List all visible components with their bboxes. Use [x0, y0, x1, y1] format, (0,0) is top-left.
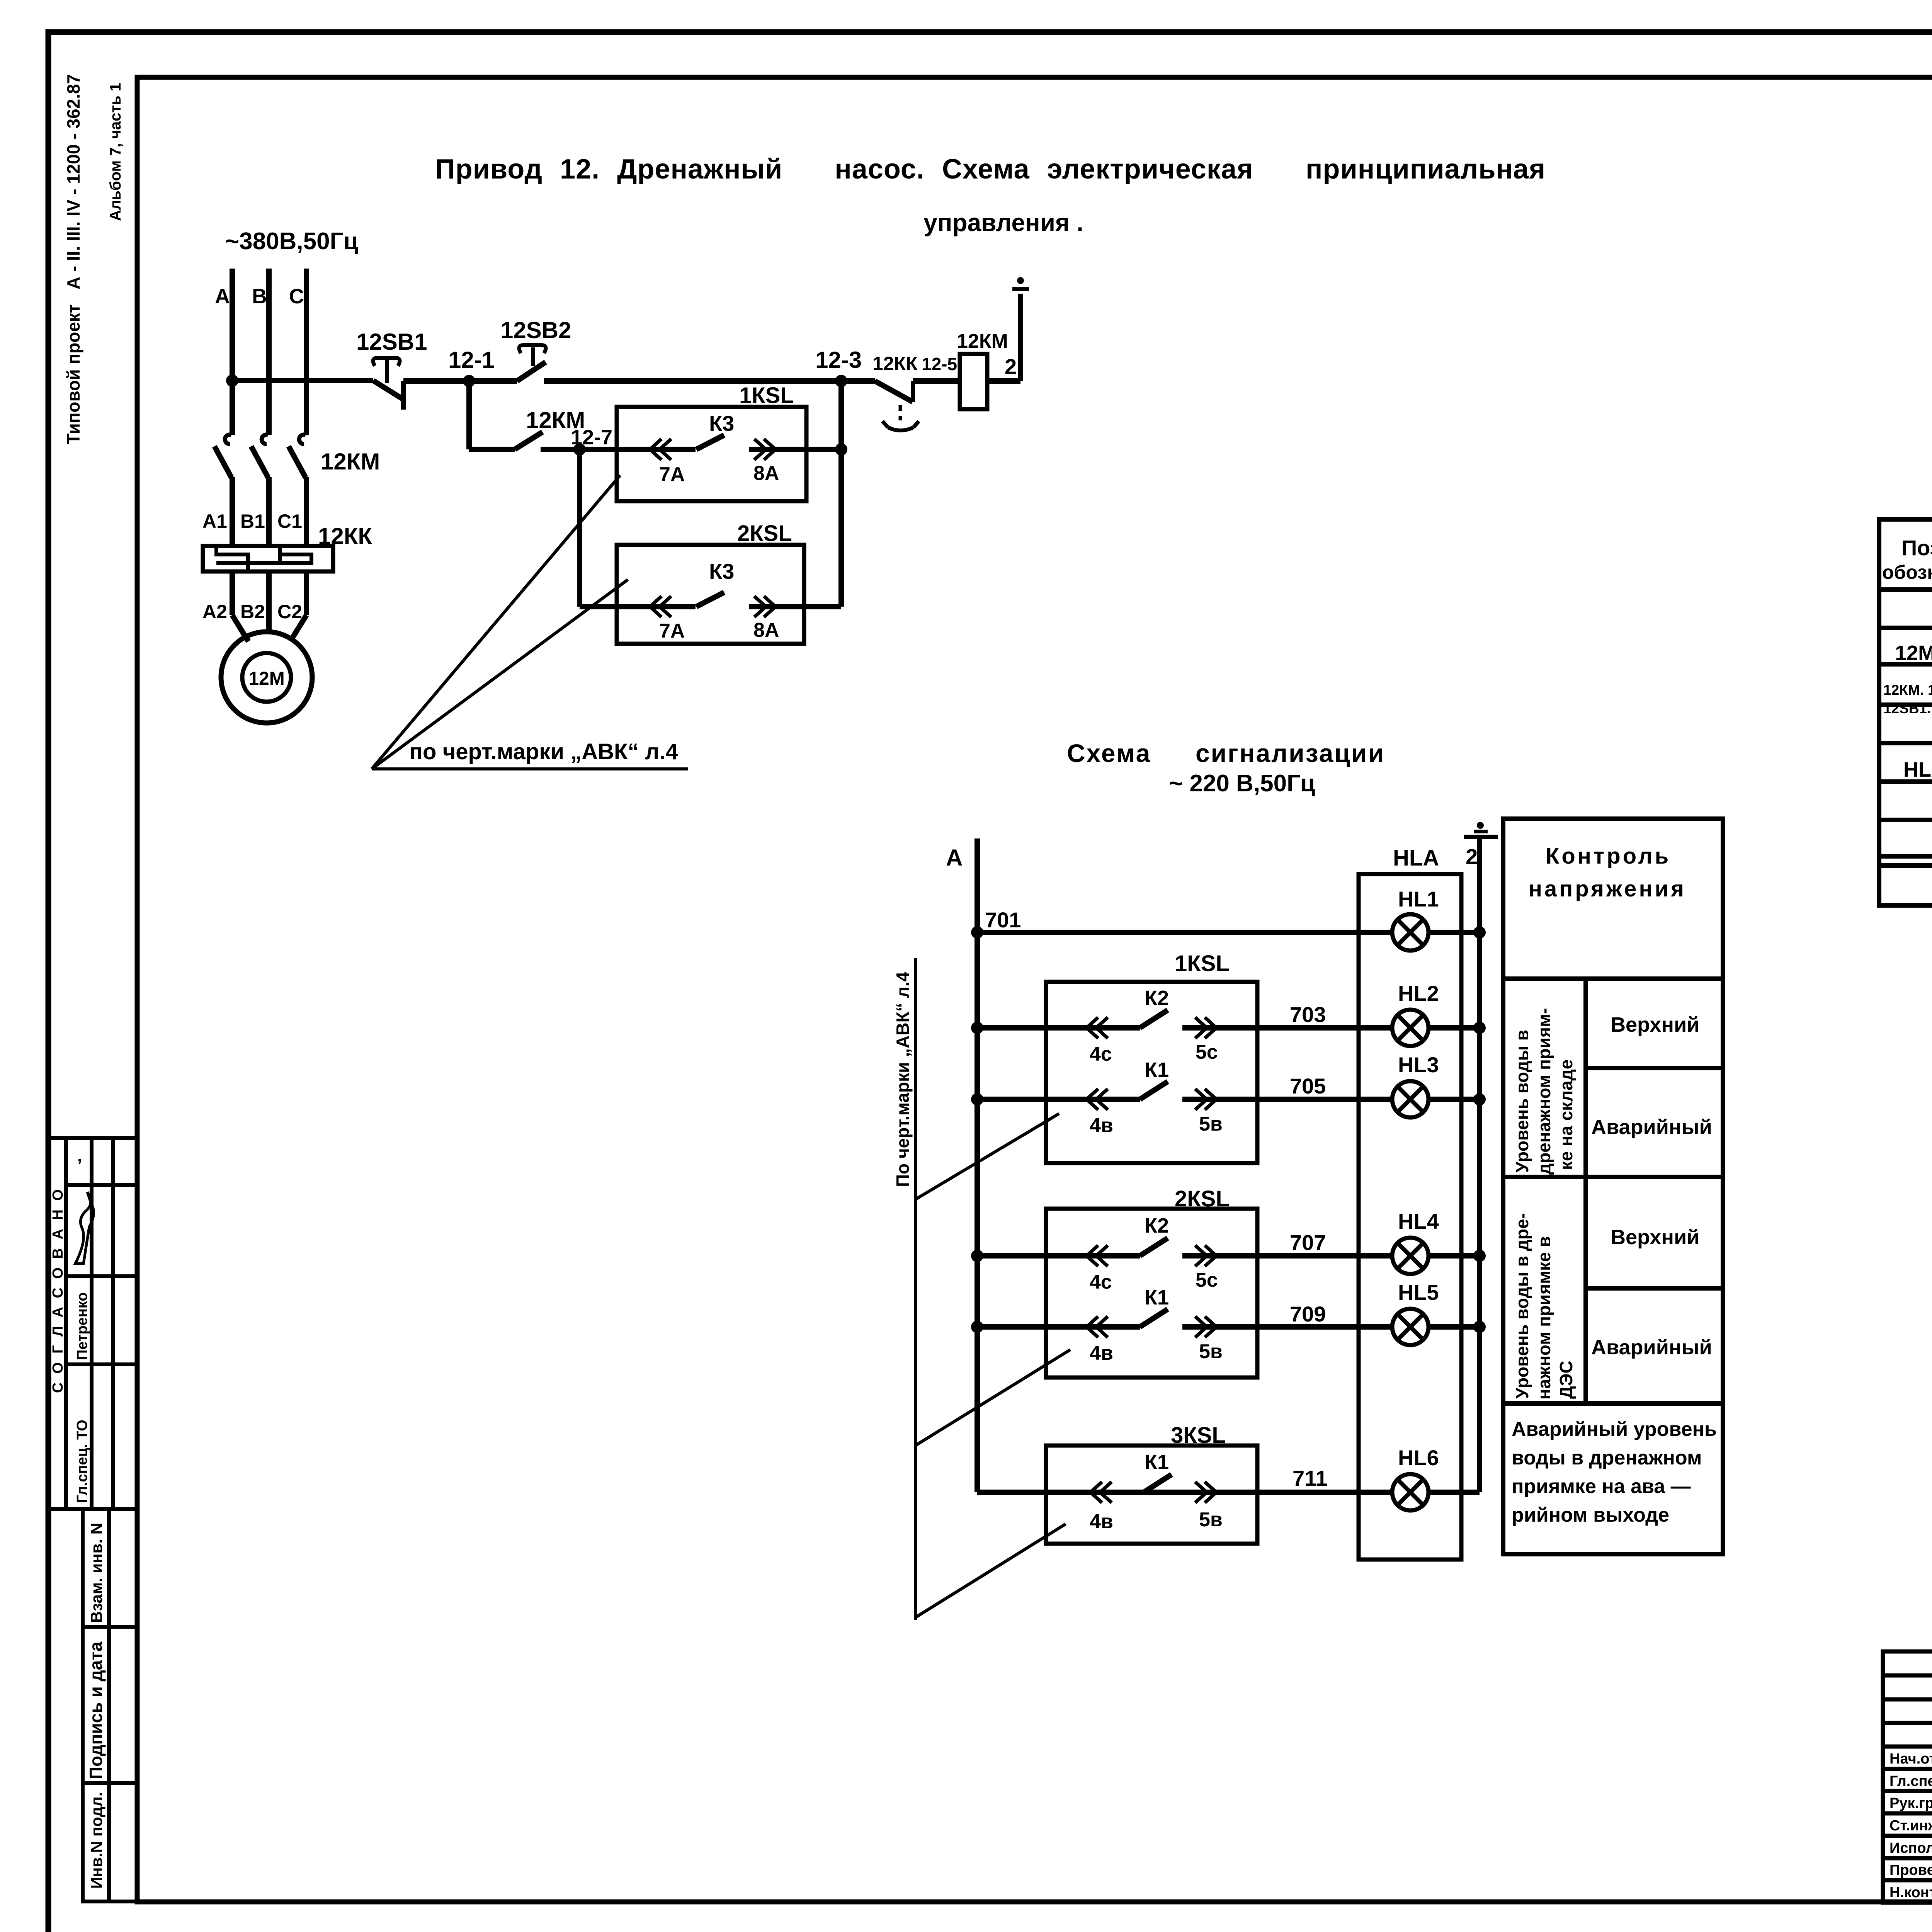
svg-text:Н.контр.: Н.контр. — [1889, 1884, 1932, 1901]
svg-text:А: А — [215, 285, 230, 308]
svg-text:4в: 4в — [1090, 1342, 1113, 1364]
svg-text:С1: С1 — [277, 510, 302, 532]
svg-text:12SВ1: 12SВ1 — [356, 329, 427, 355]
svg-text:Инв.N подл.: Инв.N подл. — [87, 1792, 105, 1889]
svg-text:Гл.спец.: Гл.спец. — [1889, 1773, 1932, 1789]
svg-text:~ 220 В,50Гц: ~ 220 В,50Гц — [1169, 770, 1315, 797]
svg-text:С О Г Л А С О В А Н О: С О Г Л А С О В А Н О — [50, 1187, 66, 1393]
svg-text:7А: 7А — [659, 620, 685, 642]
svg-text:ДЭС: ДЭС — [1556, 1361, 1576, 1399]
svg-text:4с: 4с — [1090, 1043, 1112, 1065]
svg-text:Контроль: Контроль — [1546, 844, 1671, 869]
svg-text:1КSL: 1КSL — [739, 383, 794, 408]
svg-text:4в: 4в — [1090, 1114, 1113, 1137]
svg-text:Провер.: Провер. — [1889, 1862, 1932, 1878]
svg-text:12М: 12М — [248, 668, 284, 689]
svg-text:2КSL: 2КSL — [737, 521, 792, 546]
svg-text:В1: В1 — [240, 510, 265, 532]
svg-text:К1: К1 — [1145, 1451, 1169, 1474]
svg-text:Взам. инв. N: Взам. инв. N — [87, 1523, 105, 1623]
svg-text:Ст.инж.: Ст.инж. — [1889, 1818, 1932, 1834]
svg-text:12КМ: 12КМ — [957, 330, 1008, 352]
svg-text:НLА: НLА — [1393, 845, 1439, 871]
svg-text:5в: 5в — [1199, 1113, 1223, 1135]
svg-text:12-5: 12-5 — [922, 354, 957, 374]
svg-text:~380В,50Гц: ~380В,50Гц — [225, 228, 358, 255]
svg-text:12-7: 12-7 — [571, 426, 612, 449]
svg-text:К3: К3 — [709, 559, 734, 583]
svg-text:Поз.: Поз. — [1901, 536, 1932, 560]
svg-text:Уровень воды в: Уровень воды в — [1512, 1030, 1532, 1173]
svg-text:Рук.гр: Рук.гр — [1889, 1795, 1932, 1811]
svg-text:ке на складе: ке на складе — [1556, 1060, 1576, 1170]
svg-text:Исполн.: Исполн. — [1889, 1840, 1932, 1856]
svg-text:12КМ: 12КМ — [321, 449, 380, 474]
svg-text:2: 2 — [1466, 844, 1478, 869]
svg-text:1КSL: 1КSL — [1175, 951, 1230, 976]
svg-text:Схема сигнализации: Схема сигнализации — [1067, 739, 1385, 767]
svg-text:8А: 8А — [753, 462, 779, 485]
svg-text:705: 705 — [1290, 1074, 1326, 1098]
svg-text:Петренко: Петренко — [74, 1292, 90, 1360]
svg-text:приямке на ава —: приямке на ава — — [1512, 1475, 1691, 1498]
svg-text:5в: 5в — [1199, 1509, 1223, 1531]
svg-text:управления .: управления . — [923, 209, 1083, 236]
svg-text:Уровень воды в дре-: Уровень воды в дре- — [1512, 1213, 1532, 1399]
svg-text:Аварийный уровень: Аварийный уровень — [1512, 1418, 1717, 1440]
svg-text:НLА: НLА — [1903, 758, 1932, 781]
svg-text:К3: К3 — [709, 411, 734, 435]
svg-text:Альбом 7, часть 1: Альбом 7, часть 1 — [107, 83, 124, 221]
svg-text:709: 709 — [1290, 1302, 1326, 1326]
svg-text:А2: А2 — [202, 601, 227, 622]
svg-text:5с: 5с — [1196, 1041, 1218, 1063]
svg-text:К2: К2 — [1145, 986, 1169, 1010]
svg-text:711: 711 — [1293, 1466, 1327, 1490]
svg-text:Верхний: Верхний — [1611, 1226, 1699, 1249]
svg-text:А1: А1 — [202, 510, 227, 532]
svg-text:Верхний: Верхний — [1611, 1013, 1699, 1036]
svg-text:701: 701 — [985, 908, 1021, 932]
svg-text:7А: 7А — [659, 463, 685, 486]
svg-text:12SВ1. 12SВ2: 12SВ1. 12SВ2 — [1883, 701, 1932, 716]
svg-text:Типовой проект А - II. III.: Типовой проект А - II. III. IV - 1200 - … — [63, 74, 83, 444]
svg-text:НL3: НL3 — [1398, 1053, 1439, 1077]
svg-text:К1: К1 — [1145, 1286, 1169, 1309]
svg-text:НL4: НL4 — [1398, 1209, 1439, 1233]
svg-text:Аварийный: Аварийный — [1591, 1336, 1712, 1359]
svg-text:Гл.спец. ТО: Гл.спец. ТО — [74, 1420, 90, 1503]
svg-text:НL5: НL5 — [1398, 1280, 1439, 1304]
svg-text:Аварийный: Аварийный — [1591, 1116, 1712, 1139]
svg-text:В2: В2 — [240, 601, 265, 622]
svg-text:12SВ2: 12SВ2 — [500, 317, 571, 343]
svg-text:12-1: 12-1 — [448, 347, 495, 373]
svg-text:обознач.: обознач. — [1882, 561, 1932, 583]
svg-text:ʼ: ʼ — [77, 1156, 82, 1175]
svg-text:12КК: 12КК — [872, 353, 918, 374]
svg-text:12М: 12М — [1895, 641, 1932, 665]
svg-text:НL6: НL6 — [1398, 1446, 1439, 1470]
svg-text:2: 2 — [1005, 354, 1017, 379]
svg-text:воды в дренажном: воды в дренажном — [1512, 1447, 1702, 1469]
svg-text:703: 703 — [1290, 1002, 1326, 1027]
svg-text:12-3: 12-3 — [815, 347, 862, 373]
svg-text:3КSL: 3КSL — [1171, 1423, 1226, 1448]
svg-text:4в: 4в — [1090, 1510, 1113, 1533]
svg-text:нажном приямке в: нажном приямке в — [1534, 1236, 1554, 1400]
svg-text:707: 707 — [1290, 1230, 1326, 1255]
svg-text:С2: С2 — [277, 601, 302, 622]
svg-text:8А: 8А — [753, 619, 779, 641]
svg-text:А: А — [946, 845, 963, 871]
svg-text:5в: 5в — [1199, 1340, 1223, 1363]
svg-text:К2: К2 — [1145, 1214, 1169, 1237]
svg-text:По черт.марки „АВК“ л.4: По черт.марки „АВК“ л.4 — [893, 972, 913, 1187]
svg-text:Привод 12. Дренажный насос.: Привод 12. Дренажный насос. Схема электр… — [435, 154, 1546, 185]
svg-text:12КК: 12КК — [318, 523, 372, 549]
svg-text:рийном выходе: рийном выходе — [1512, 1504, 1669, 1526]
svg-text:дренажном приям-: дренажном приям- — [1534, 1008, 1554, 1175]
svg-text:НL1: НL1 — [1398, 887, 1439, 911]
svg-text:К1: К1 — [1145, 1058, 1169, 1082]
svg-text:НL2: НL2 — [1398, 981, 1439, 1005]
svg-text:напряжения: напряжения — [1529, 876, 1686, 901]
svg-text:Подпись и дата: Подпись и дата — [86, 1641, 106, 1779]
svg-text:4с: 4с — [1090, 1271, 1112, 1293]
svg-text:5с: 5с — [1196, 1269, 1218, 1291]
svg-text:С: С — [289, 285, 304, 308]
svg-text:2КSL: 2КSL — [1175, 1186, 1230, 1211]
svg-text:12КМ. 12КК.: 12КМ. 12КК. — [1883, 682, 1932, 698]
svg-text:по черт.марки „АВК“ л.4: по черт.марки „АВК“ л.4 — [409, 739, 678, 764]
svg-text:Нач.отд.: Нач.отд. — [1889, 1751, 1932, 1767]
svg-text:В: В — [252, 285, 267, 308]
